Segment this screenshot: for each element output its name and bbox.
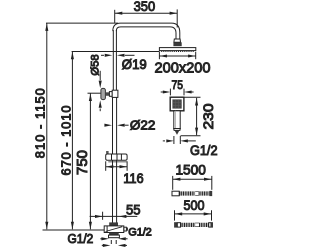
svg-text:G1/2: G1/2 [190,143,218,158]
svg-text:670 - 1010: 670 - 1010 [59,106,74,176]
svg-text:55: 55 [126,202,141,218]
svg-text:75: 75 [172,78,184,92]
wall bracket [106,151,128,162]
riser pipe upper Ø19 [113,30,116,90]
valve bottom inlet [109,233,120,245]
dim valve inlet arrows row1 [100,237,127,240]
svg-text:1500: 1500 [175,162,206,178]
svg-text:200x200: 200x200 [155,60,211,77]
svg-text:G1/2: G1/2 [128,226,152,238]
dim 55 [90,212,138,220]
hand shower handle [174,111,181,135]
dim 230 [181,97,201,135]
svg-text:810 - 1150: 810 - 1150 [33,88,48,158]
dim Ø19 arrows [101,54,135,57]
dim handle width [163,136,196,144]
dim 500 [175,210,212,220]
dim 75 [161,89,194,96]
svg-text:750: 750 [75,150,91,175]
svg-text:230: 230 [200,103,216,129]
svg-text:Ø19: Ø19 [122,57,147,72]
dim Ø58 leader arrows [99,71,102,111]
dim 200x200 [159,52,195,59]
valve body [104,222,128,232]
shower arm top bend [113,23,180,39]
slider knob Ø58 [101,88,118,99]
dim 750 [88,93,102,229]
dim 1500 [173,176,212,190]
dim valve inlet arrows row2 [102,244,127,247]
svg-text:G1/2: G1/2 [68,232,94,246]
dim 670-1010 [71,52,160,230]
svg-text:116: 116 [123,170,144,186]
svg-text:500: 500 [184,197,205,213]
dim Ø22 arrows [104,124,128,127]
rain shower head plate [159,48,195,52]
svg-text:Ø22: Ø22 [130,117,156,132]
dim 350 [115,9,178,27]
bottom reference line [43,229,105,231]
dim 810-1150 [45,23,118,229]
connection hose 500 [174,222,213,227]
dim 116 [106,161,127,171]
hand shower head [170,97,184,111]
svg-text:Ø58: Ø58 [89,54,101,75]
shower hose 1500 [172,191,212,196]
shower head ball joint connector [173,39,181,46]
svg-text:350: 350 [134,0,156,14]
riser pipe lower Ø22 [113,97,117,222]
